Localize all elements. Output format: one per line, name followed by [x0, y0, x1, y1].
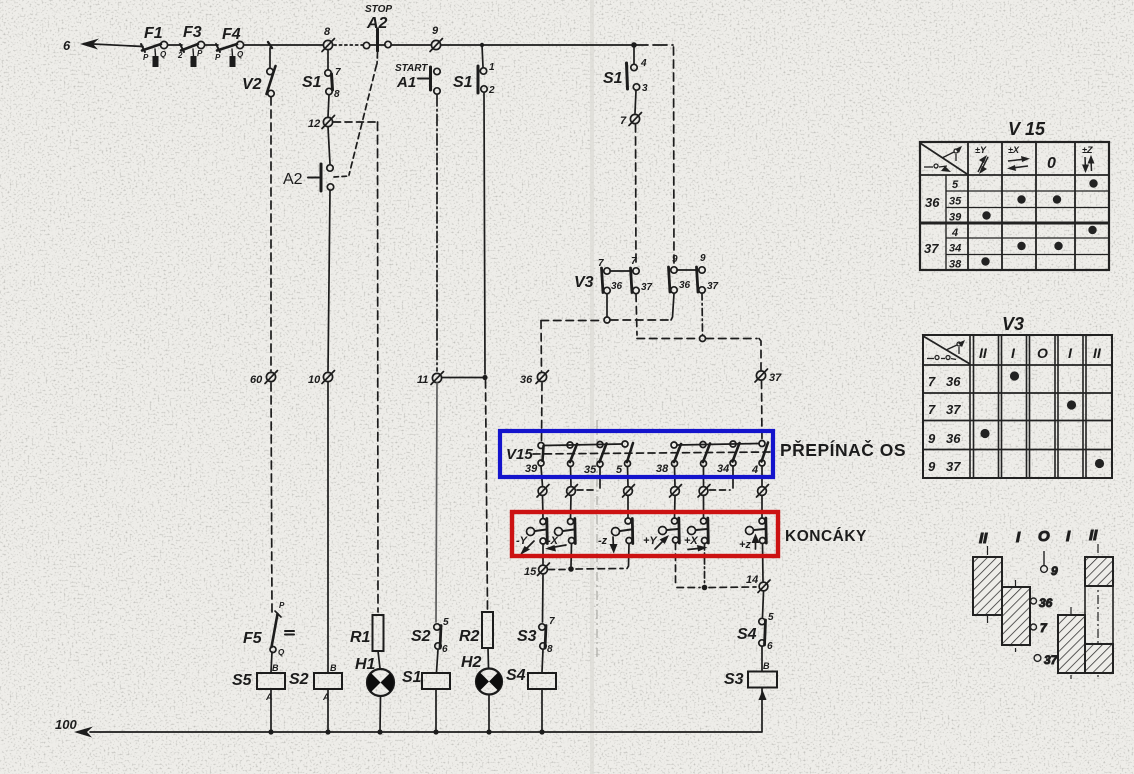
- cam centerline 2: [1015, 580, 1017, 652]
- svg-text:36: 36: [520, 374, 533, 386]
- wire c3 elbow: [577, 467, 600, 490]
- wire B bottom down dashed: [636, 294, 637, 335]
- terminal 9: [430, 39, 443, 52]
- svg-text:36: 36: [1039, 596, 1053, 610]
- wire c2 stem: [570, 467, 573, 486]
- glyph actuator lower V3: [927, 356, 956, 360]
- terminal 10: [322, 371, 335, 384]
- svg-text:37: 37: [946, 459, 961, 474]
- contact S2 5/6: [434, 624, 441, 672]
- wire F1-F3: [168, 44, 182, 46]
- wire 60 down dashed: [271, 383, 272, 612]
- wire A1 down dash-dot: [436, 95, 438, 371]
- cam block 3: [1058, 615, 1085, 673]
- junction dot k5: [702, 585, 708, 591]
- svg-text:O: O: [1038, 528, 1050, 545]
- switch V2: [267, 48, 276, 97]
- terminal under c6: [698, 485, 710, 498]
- svg-text:P: P: [215, 53, 221, 62]
- terminal under c5: [670, 485, 682, 498]
- cam block 2: [1002, 587, 1030, 645]
- pushbutton A1 START: [418, 67, 440, 94]
- dot row5 Z: [1089, 179, 1097, 187]
- wire A2 down to phi10: [328, 191, 330, 372]
- coil S5: [257, 673, 285, 731]
- wire V15 mechanical link dashed: [533, 452, 770, 454]
- switch V3 contact C 9/36: [669, 267, 678, 293]
- dot row34 X: [1017, 242, 1025, 250]
- svg-text:60: 60: [250, 374, 263, 386]
- svg-text:V15: V15: [506, 446, 533, 463]
- svg-text:P: P: [197, 49, 203, 58]
- junction dot S1: [433, 729, 438, 734]
- svg-text:S3: S3: [724, 671, 744, 688]
- svg-text:9: 9: [432, 25, 439, 37]
- junction dot S2: [325, 729, 330, 734]
- switch V15 c5 38: [671, 442, 681, 467]
- svg-text:+Y: +Y: [643, 535, 658, 547]
- wire V2 down dashed: [270, 97, 272, 371]
- wire 14 down: [763, 592, 764, 617]
- terminal 15: [538, 563, 550, 576]
- svg-text:P: P: [143, 53, 149, 62]
- svg-text:39: 39: [525, 463, 538, 475]
- node junction circle right: [700, 336, 706, 342]
- wire S1(1/2) down: [484, 93, 485, 375]
- arrow +Z: [752, 534, 760, 550]
- wire phi to k1: [542, 496, 545, 518]
- dot r3 II: [980, 429, 989, 438]
- node 36 circle: [1031, 598, 1037, 604]
- svg-text:S4: S4: [506, 667, 526, 684]
- svg-text:II: II: [979, 530, 988, 547]
- contact S3 7/8: [539, 624, 546, 672]
- contact S1 7/8: [325, 50, 333, 117]
- node 37 circle: [1034, 655, 1041, 662]
- svg-text:9: 9: [928, 459, 936, 474]
- node 6 arrow: [80, 39, 99, 50]
- svg-text:S2: S2: [411, 628, 431, 645]
- wire S1(1/2) dashed down to R2: [486, 380, 488, 610]
- switch V15 c1 39: [538, 443, 544, 467]
- node 7 circle: [1031, 624, 1037, 630]
- breaker F5: [270, 611, 294, 672]
- contact S4 5/6: [759, 618, 766, 671]
- glyph +-X arrows: [1007, 156, 1030, 171]
- svg-text:37: 37: [924, 241, 939, 256]
- wire bridge A-B tops: [610, 270, 633, 272]
- svg-text:S1: S1: [302, 74, 322, 91]
- svg-text:7: 7: [549, 616, 555, 627]
- dot r1 I: [1010, 371, 1019, 380]
- svg-text:V 15: V 15: [1008, 119, 1046, 139]
- svg-text:II: II: [979, 345, 988, 361]
- svg-text:V2: V2: [242, 76, 262, 93]
- wire phi7 down dashed to V3: [635, 124, 638, 266]
- svg-text:F4: F4: [222, 26, 241, 43]
- svg-text:5: 5: [952, 179, 959, 191]
- wire bridge c5-c8: [678, 444, 760, 446]
- svg-text:R2: R2: [459, 628, 480, 645]
- svg-text:2: 2: [488, 85, 495, 96]
- svg-text:V3: V3: [1002, 314, 1024, 334]
- box PREPINAC OS: [500, 431, 773, 477]
- cam block 1: [973, 557, 1002, 615]
- node 100 arrow: [74, 727, 93, 738]
- svg-text:H2: H2: [461, 654, 482, 671]
- wire c6 stem: [703, 467, 705, 486]
- svg-text:S5: S5: [232, 672, 253, 689]
- svg-text:100: 100: [55, 717, 77, 732]
- svg-text:9: 9: [1051, 564, 1058, 578]
- coil S2: [314, 673, 342, 731]
- wire c5 stem: [674, 467, 677, 486]
- wire c1 stem: [541, 466, 543, 486]
- svg-text:9: 9: [672, 254, 678, 265]
- svg-text:36: 36: [946, 431, 961, 446]
- glyph actuator lower: [924, 164, 951, 172]
- wire phi9 to S1 branch: [441, 44, 634, 46]
- terminal under c2: [566, 485, 578, 498]
- svg-text:S3: S3: [517, 628, 537, 645]
- resistor R2: [482, 612, 493, 668]
- svg-text:Q: Q: [278, 648, 285, 657]
- svg-text:F3: F3: [183, 24, 202, 41]
- wire phi to k4: [674, 496, 677, 518]
- wire k4 bottom dashed: [675, 543, 677, 584]
- svg-text:H1: H1: [355, 656, 376, 673]
- terminal 37: [755, 369, 768, 382]
- wire k6 bottom: [762, 544, 765, 582]
- terminal 36: [536, 371, 549, 384]
- svg-text:S2: S2: [289, 671, 309, 688]
- svg-text:S1: S1: [453, 74, 473, 91]
- svg-text:38: 38: [656, 463, 669, 475]
- junction dot: [482, 375, 487, 380]
- cam centerline 3: [1070, 607, 1072, 679]
- terminal 7: [629, 113, 642, 126]
- wire dashed 14 bus east: [709, 586, 756, 589]
- fuse F3: [180, 41, 205, 67]
- junction dot S5: [268, 729, 273, 734]
- svg-text:II: II: [1089, 527, 1098, 544]
- dot row35 X: [1017, 195, 1025, 203]
- svg-text:1: 1: [489, 62, 495, 73]
- wire dotted phi8 to STOP: [334, 44, 364, 46]
- wire top rail left: [93, 44, 143, 47]
- svg-text:S1: S1: [603, 70, 623, 87]
- wire phi to k6: [761, 496, 763, 518]
- svg-text:A: A: [265, 692, 273, 702]
- wire 37 down dashed to V15: [761, 381, 764, 441]
- svg-text:R1: R1: [350, 629, 371, 646]
- cam block 4: [1085, 557, 1113, 586]
- wire phi to k5: [703, 496, 705, 518]
- svg-text:36: 36: [611, 281, 623, 292]
- svg-text:6: 6: [442, 644, 448, 655]
- wire k3 bottom elbow: [627, 544, 629, 569]
- dot row38 Y: [981, 257, 989, 265]
- svg-text:KONCÁKY: KONCÁKY: [785, 528, 867, 545]
- svg-text:4: 4: [951, 227, 958, 239]
- cam link lines: [1084, 586, 1086, 644]
- terminal 12: [322, 116, 335, 129]
- switch V15 c3 35: [597, 442, 607, 468]
- table V15 row lines: [920, 174, 1109, 176]
- wire corner down to phi36: [540, 321, 543, 371]
- svg-text:2: 2: [177, 51, 183, 60]
- svg-text:PŘEPÍNAČ OS: PŘEPÍNAČ OS: [780, 439, 906, 460]
- svg-text:39: 39: [949, 212, 962, 224]
- svg-text:7: 7: [928, 374, 936, 389]
- limit switch -Y: [527, 519, 548, 545]
- resistor R1: [373, 615, 384, 669]
- svg-text:11: 11: [417, 374, 428, 386]
- table V3: [923, 335, 1112, 478]
- svg-text:A2: A2: [366, 15, 388, 32]
- dot row4 Z: [1088, 226, 1096, 234]
- wire dashed 15 bus: [548, 569, 565, 571]
- svg-text:35: 35: [584, 464, 597, 476]
- svg-text:Q: Q: [160, 50, 167, 59]
- wire bottom rail: [90, 731, 762, 733]
- contact S1 1/2: [478, 45, 487, 93]
- glyph switch upper V3: [946, 340, 965, 354]
- coil S1: [422, 673, 450, 731]
- svg-text:-z: -z: [598, 535, 608, 547]
- glyph +-Z arrows: [1082, 155, 1095, 173]
- svg-text:37: 37: [707, 281, 719, 292]
- svg-text:7: 7: [631, 256, 637, 267]
- limit switch -Z: [612, 518, 633, 544]
- svg-text:-X: -X: [547, 535, 559, 547]
- wire 15 down: [542, 575, 545, 622]
- junction dot S4: [539, 729, 544, 734]
- svg-text:10: 10: [308, 374, 321, 386]
- wire phi to k3: [627, 496, 629, 518]
- node 9 stem: [1041, 551, 1048, 572]
- wire slanted linkage to A2 contact: [349, 65, 377, 175]
- arrow -X: [545, 545, 566, 552]
- switch V15 c7 34: [730, 441, 740, 466]
- svg-text:9: 9: [928, 431, 936, 446]
- switch V15 c4 5: [622, 441, 633, 467]
- svg-text:34: 34: [949, 243, 961, 255]
- wire dashed 37-bus: [637, 338, 699, 340]
- wire phi12 dashed elbow right: [334, 121, 378, 123]
- switch V3 contact A 7/36: [602, 268, 611, 294]
- wire F3-F4: [205, 44, 218, 46]
- svg-text:B: B: [763, 661, 770, 671]
- svg-text:±Z: ±Z: [1082, 145, 1093, 155]
- svg-text:34: 34: [717, 463, 729, 475]
- svg-text:V3: V3: [574, 274, 594, 291]
- svg-text:8: 8: [324, 26, 331, 38]
- dot r2 I: [1067, 400, 1076, 409]
- arrow into S3 coil: [759, 690, 767, 700]
- junction dot S1(1/2): [480, 43, 484, 47]
- dot row39 Y: [982, 211, 990, 219]
- svg-text:8: 8: [547, 644, 553, 655]
- terminal under c1: [537, 485, 549, 498]
- scan crease: [590, 0, 594, 774]
- wire c4 stem: [627, 467, 630, 486]
- table V15 diagonal: [920, 143, 967, 174]
- svg-text:P: P: [279, 601, 285, 610]
- svg-text:4: 4: [751, 464, 758, 476]
- wire corner down to phi37: [759, 339, 761, 371]
- wire corner up to C bottom: [671, 294, 674, 321]
- fuse F4: [216, 41, 244, 67]
- svg-text:7: 7: [335, 67, 341, 78]
- wire 36 down dashed to V15: [541, 383, 544, 441]
- limit switch +X: [688, 518, 709, 544]
- svg-text:-Y: -Y: [516, 535, 529, 547]
- contact S1 4/3: [627, 45, 640, 113]
- svg-text:±X: ±X: [1008, 145, 1020, 155]
- terminal 11: [431, 372, 444, 385]
- table V3 frame: [923, 335, 1112, 478]
- cam centerline 4: [1097, 544, 1099, 679]
- svg-text:7: 7: [598, 258, 604, 269]
- svg-text:F1: F1: [144, 25, 163, 42]
- dot r4 II: [1095, 459, 1104, 468]
- svg-text:5: 5: [616, 464, 623, 476]
- table V15 col lines: [967, 142, 969, 270]
- limit switch +Y: [659, 518, 680, 543]
- junction V2 branch: [268, 42, 272, 48]
- svg-text:5: 5: [768, 612, 774, 623]
- svg-text:+X: +X: [684, 535, 698, 547]
- lamp H2: [476, 669, 502, 732]
- svg-text:8: 8: [334, 89, 340, 100]
- svg-text:7: 7: [928, 402, 936, 417]
- wire dashed 36-bus to C: [611, 319, 670, 321]
- wire D bottom down dash-dot: [701, 293, 704, 335]
- svg-text:II: II: [1093, 345, 1102, 361]
- svg-text:A2: A2: [283, 171, 303, 188]
- wire dashed 36-bus: [541, 320, 604, 322]
- wire bridge C-D tops: [677, 269, 699, 271]
- svg-text:38: 38: [949, 259, 962, 271]
- wire dashed 14 bus: [677, 587, 700, 589]
- wire bridge c1-c4: [544, 444, 622, 446]
- wire 10 down: [327, 382, 329, 672]
- table V3 row lines: [923, 364, 1112, 366]
- wire phi to k2: [570, 496, 573, 518]
- svg-text:5: 5: [443, 617, 449, 628]
- contact A2 auxiliary: [308, 127, 349, 191]
- svg-text:35: 35: [949, 196, 962, 208]
- svg-text:±Y: ±Y: [975, 145, 987, 155]
- glyph switch upper: [942, 146, 962, 161]
- svg-text:37: 37: [641, 282, 653, 293]
- coil S3: [748, 672, 777, 732]
- svg-text:4: 4: [640, 58, 647, 69]
- svg-text:37: 37: [1044, 653, 1059, 667]
- svg-text:START: START: [395, 63, 428, 74]
- svg-text:3: 3: [642, 83, 648, 94]
- terminal 8: [322, 39, 335, 52]
- switch V3 contact B 7/37: [631, 268, 640, 294]
- table V3 diagonal: [923, 336, 970, 364]
- arrow +Y: [655, 535, 669, 549]
- terminal 14: [758, 580, 770, 593]
- wire corner down to V3 contact C: [673, 47, 676, 266]
- dot row34 0: [1054, 242, 1062, 250]
- cam block 5: [1085, 644, 1113, 673]
- svg-text:7: 7: [620, 115, 627, 127]
- switch V15 c6: [700, 442, 710, 467]
- arrow -Z: [610, 537, 618, 554]
- svg-text:+z: +z: [739, 539, 751, 551]
- switch V15 c2: [567, 442, 577, 467]
- arrow +X: [688, 545, 708, 552]
- wire c8 stem: [761, 466, 763, 486]
- node junction circle left: [604, 317, 610, 323]
- wire c7 elbow: [710, 466, 734, 490]
- table V15 frame: [920, 142, 1109, 270]
- svg-text:6: 6: [63, 38, 71, 53]
- junction dot k2: [568, 566, 574, 572]
- svg-text:S4: S4: [737, 626, 757, 643]
- svg-text:STOP: STOP: [365, 4, 392, 15]
- wire STOP linkage dashes: [376, 53, 379, 64]
- wire k2 bottom: [570, 544, 573, 567]
- junction dot S1(4/3): [631, 42, 637, 48]
- svg-text:36: 36: [946, 374, 961, 389]
- table V3 col double lines: [970, 335, 1086, 478]
- wire dashed 37-bus east: [706, 338, 757, 340]
- glyph +-Y arrows: [978, 155, 988, 174]
- svg-text:12: 12: [308, 118, 320, 130]
- wire STOP to phi9: [391, 44, 431, 46]
- coil S4: [528, 673, 556, 731]
- wire rail to right corner: [634, 44, 673, 46]
- switch V15 c8 4: [759, 441, 768, 467]
- wire A bottom down: [606, 294, 608, 317]
- svg-text:B: B: [272, 663, 279, 673]
- svg-text:S1: S1: [402, 669, 422, 686]
- svg-text:37: 37: [769, 372, 782, 384]
- wire 11 to junction: [442, 377, 484, 379]
- junction dot H1: [377, 729, 382, 734]
- switch V3 contact D 9/37: [697, 267, 706, 293]
- limit switch -X: [555, 519, 576, 544]
- arrow -Y: [520, 541, 534, 555]
- svg-text:A1: A1: [396, 74, 416, 91]
- svg-text:0: 0: [1047, 155, 1056, 172]
- svg-text:9: 9: [700, 253, 706, 264]
- wire long dashed down to R1: [377, 122, 380, 612]
- lamp H1: [367, 669, 394, 731]
- wire k1 bottom: [542, 544, 544, 564]
- svg-text:36: 36: [679, 280, 691, 291]
- pushbutton A2 STOP: [363, 29, 391, 51]
- cam centerline 1: [987, 546, 989, 624]
- box KONCAKY: [512, 512, 778, 556]
- terminal 60: [265, 371, 278, 384]
- terminal under c8: [757, 485, 769, 498]
- limit switch +Z: [746, 518, 767, 544]
- dot row35 0: [1053, 195, 1061, 203]
- svg-text:15: 15: [524, 566, 537, 578]
- terminal under c4: [623, 485, 635, 498]
- wire F4 to phi8: [244, 44, 323, 46]
- svg-text:37: 37: [946, 402, 961, 417]
- svg-text:B: B: [330, 663, 337, 673]
- svg-text:6: 6: [767, 641, 773, 652]
